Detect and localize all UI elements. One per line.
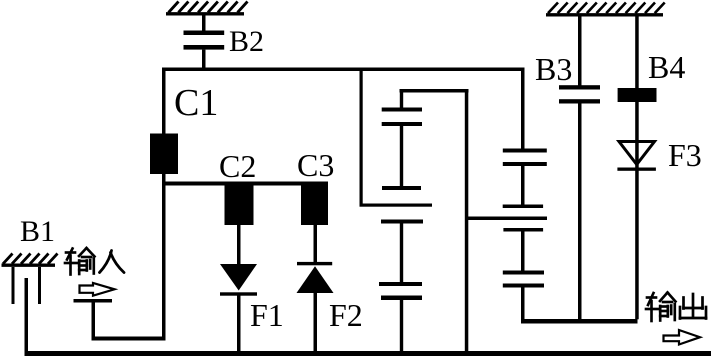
wire stub from chassis to B2 xyxy=(202,15,206,31)
wire stub R7 to output rail xyxy=(521,288,525,322)
svg-text:C3: C3 xyxy=(297,147,334,183)
wire F1 to bottom rail xyxy=(237,296,241,352)
input terminal bar xyxy=(74,299,113,303)
filter plate R2 xyxy=(503,162,547,166)
wire C2 to F1 xyxy=(237,225,241,264)
input arrow xyxy=(80,283,115,296)
filter plate P2 xyxy=(382,122,422,126)
filter plate R6 xyxy=(503,271,544,275)
capacitor C2 (black body) xyxy=(225,185,254,226)
capacitor B3 xyxy=(559,85,600,89)
wire vertical A from top rail xyxy=(360,71,363,207)
wire stub R2 to R3 xyxy=(521,166,525,205)
svg-text:B3: B3 xyxy=(535,51,572,87)
filter plate P1 xyxy=(382,108,422,112)
wire B3 to output rail xyxy=(578,104,582,320)
wire long vertical from line B to bottom rail xyxy=(465,93,469,352)
wire line B (top of middle filter) xyxy=(400,89,469,93)
wire stub P5 to P6 xyxy=(400,224,403,283)
wire C3 to F2 xyxy=(314,225,318,262)
filter plate P7 xyxy=(381,296,422,301)
B1 left prong xyxy=(12,267,15,304)
wire top rail xyxy=(162,68,525,72)
wire stub B2 to top rail xyxy=(202,50,206,68)
filter plate R1 xyxy=(503,149,547,153)
diode F1 xyxy=(220,264,257,291)
filter plate P6 xyxy=(379,282,422,286)
wire chassis to B3 xyxy=(578,16,582,86)
wire F2 to bottom rail xyxy=(314,293,318,351)
svg-text:B1: B1 xyxy=(20,215,55,248)
svg-text:C1: C1 xyxy=(174,82,218,124)
output arrow xyxy=(664,330,701,345)
filter plate P4 (tied to vertical A) xyxy=(360,204,433,207)
filter plate R5 xyxy=(503,228,543,232)
wire input elbow vertical xyxy=(92,303,96,341)
filter plate P5 xyxy=(381,220,423,224)
diode F2 xyxy=(297,262,332,265)
wire stub R5 to R6 xyxy=(521,232,525,271)
wire output rail xyxy=(521,319,638,324)
capacitor C3 (black body) xyxy=(301,185,328,226)
wire input elbow horizontal xyxy=(92,337,166,341)
wire stub P2 to P3 xyxy=(400,126,403,186)
label input (shu) xyxy=(65,248,95,275)
B1 right prong xyxy=(38,267,41,304)
wire B1 centre lead to bottom rail xyxy=(25,278,29,354)
diode F3 (hollow) xyxy=(619,142,655,165)
filter plate P3 xyxy=(382,186,421,190)
capacitor C1 (black body) xyxy=(150,134,178,175)
svg-text:F2: F2 xyxy=(329,297,363,333)
wire stub P7 to bottom rail xyxy=(400,300,403,352)
label output (chu) xyxy=(680,294,706,319)
label output (shu) xyxy=(646,293,676,322)
svg-text:C2: C2 xyxy=(219,148,256,184)
ground top-left chassis bar xyxy=(166,2,248,14)
svg-text:F3: F3 xyxy=(668,137,702,173)
wire stub to P1 xyxy=(400,93,403,109)
wire bottom rail xyxy=(25,351,711,356)
wire left vertical xyxy=(162,68,166,341)
capacitor B2 xyxy=(184,31,225,36)
filter plate R4 (tied to long vertical) xyxy=(466,217,547,221)
wire top rail corner down to right stack xyxy=(521,71,525,149)
filter plate R3 xyxy=(503,205,543,209)
wire B4 through F3 to output rail xyxy=(635,102,639,319)
transducer B1 chassis bar xyxy=(2,254,58,266)
wire chassis to B4 xyxy=(635,16,639,88)
wire mid rail xyxy=(162,182,328,186)
filter plate R7 xyxy=(503,284,544,288)
label input (ru) xyxy=(100,251,125,273)
svg-text:F1: F1 xyxy=(250,297,284,333)
component B4 (black body) xyxy=(618,88,657,102)
ground top-right chassis bar xyxy=(546,3,665,15)
svg-text:B2: B2 xyxy=(229,25,264,58)
svg-text:B4: B4 xyxy=(648,49,685,85)
